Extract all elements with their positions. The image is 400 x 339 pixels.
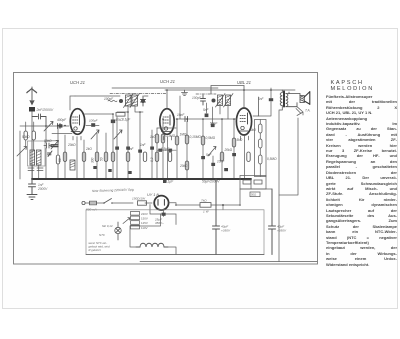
svg-text:1nF: 1nF [140, 143, 147, 147]
wire V2 grid cap [166, 90, 168, 109]
wire B+ top rail [165, 89, 295, 91]
switch S3 mains [104, 199, 112, 204]
svg-text:0,5MΩ: 0,5MΩ [206, 136, 216, 140]
tube V4 UY 1 N rectifier [154, 196, 168, 210]
svg-text:50Ω: 50Ω [251, 193, 256, 197]
capacitor C7 5nF anode [258, 88, 273, 116]
wire vertical drops left [46, 112, 152, 179]
wire B+ run [240, 179, 272, 205]
svg-text:50kΩ: 50kΩ [44, 139, 52, 143]
tube V2 UCH 21 IF amp [160, 109, 174, 141]
svg-text:UCH 21: UCH 21 [70, 80, 85, 85]
ground symbol at rail [182, 90, 188, 96]
svg-text:50pF: 50pF [210, 122, 218, 126]
svg-text:7kΩ: 7kΩ [201, 199, 207, 203]
svg-text:50µF/2000V: 50µF/2000V [202, 180, 220, 184]
loudspeaker voice coil [289, 94, 304, 107]
wire V1 anode to IF1 [70, 96, 113, 117]
wire B+ vertical right [278, 111, 280, 262]
wire diode network row [157, 96, 237, 128]
trimmer capacitor C10 [51, 141, 59, 150]
wire T2 secondary leads [207, 103, 229, 123]
svg-text:5nF: 5nF [128, 147, 135, 151]
wire V3 anode [253, 97, 259, 116]
node junction dots [45, 89, 272, 206]
svg-text:100pF: 100pF [104, 97, 114, 101]
IF transformer T2 coil L4 [226, 95, 231, 106]
lamp scale lamp [99, 222, 121, 240]
svg-text:1kΩ: 1kΩ [150, 135, 156, 139]
svg-text:0,3: 0,3 [150, 157, 154, 162]
wire tuner verticals [20, 122, 58, 179]
tuner coil L5 [30, 150, 35, 165]
capacitor C26 1nF/2000V [29, 179, 49, 194]
svg-text:10nF: 10nF [217, 160, 225, 164]
svg-text:+350V: +350V [277, 229, 287, 233]
oscillator coil L7 [70, 160, 75, 170]
svg-text:R gekürzt.: R gekürzt. [89, 248, 102, 252]
svg-text:UBL 21: UBL 21 [237, 80, 251, 85]
capacitor C9 50pF blob [211, 124, 215, 128]
wire bottom rail 2 [140, 261, 317, 263]
svg-text:150V: 150V [141, 217, 148, 221]
svg-text:0,3MΩ: 0,3MΩ [166, 134, 176, 138]
svg-text:NTC: NTC [99, 233, 106, 237]
switch arrows oscillator [91, 130, 122, 139]
svg-text:0,15MΩ: 0,15MΩ [190, 135, 202, 139]
svg-text:5nF: 5nF [258, 97, 265, 101]
wire rectifier cathode out [169, 203, 240, 205]
svg-text:2nF/2000V: 2nF/2000V [36, 108, 54, 112]
wire V3 grid cap [211, 86, 244, 108]
svg-text:UCH 21: UCH 21 [160, 79, 175, 84]
svg-text:400pF: 400pF [57, 118, 67, 122]
NTC enclosure box [86, 210, 264, 255]
capacitors C13 C14 tuner [28, 168, 43, 171]
wire speaker taps [296, 107, 303, 116]
switch S2 wave trap [17, 147, 27, 157]
wire top rail to IF1 [75, 95, 148, 97]
trimmer arrows T2 [216, 94, 234, 108]
svg-text:T.A.: T.A. [305, 109, 311, 113]
tube V3 UBL 21 output [236, 108, 251, 141]
wire AVC line [112, 87, 218, 89]
svg-text:Skl 0,14: Skl 0,14 [102, 224, 113, 228]
wire bottom rail 1 [86, 254, 264, 256]
resistor R2 input [24, 131, 27, 140]
tuner coil shield box [28, 141, 46, 166]
capacitor C4 across T1 [141, 96, 146, 106]
resistor R4 oscillator [56, 155, 59, 164]
trimmer arrow tone [208, 147, 216, 157]
wire shielded (dash-dot) [110, 93, 216, 96]
svg-text:Netz-Sicherung 220/110V Spg.: Netz-Sicherung 220/110V Spg. [92, 188, 135, 193]
svg-text:125V: 125V [141, 221, 148, 225]
ground symbol chassis [27, 195, 37, 200]
resistor R3 input [32, 131, 35, 140]
resistors R25 R26 NTC box [240, 176, 266, 190]
core dots T1 [119, 99, 123, 103]
description panel [326, 81, 397, 267]
svg-text:2kΩ: 2kΩ [85, 147, 92, 151]
wire vertical drops mid [157, 119, 234, 179]
svg-text:20kΩ: 20kΩ [179, 164, 188, 168]
svg-text:+350V: +350V [221, 229, 231, 233]
svg-text:300: 300 [91, 157, 95, 163]
wire oscillator horizontals [46, 134, 72, 141]
schematic frame [14, 73, 318, 265]
svg-text:1MΩ: 1MΩ [180, 133, 187, 137]
svg-text:50: 50 [58, 158, 62, 162]
capacitor C11 angle mark [48, 151, 53, 157]
loudspeaker LS1 horn [304, 92, 310, 113]
wire T1 secondary leads [117, 106, 143, 112]
wire grid signal row [32, 125, 69, 127]
resistor R24 7k/1W [200, 199, 224, 214]
svg-text:0,5µF: 0,5µF [161, 147, 170, 151]
svg-text:350V~: 350V~ [155, 221, 164, 225]
node bus junctions [45, 178, 246, 180]
wire chassis ground bus [32, 178, 251, 180]
IF transformer T1 coil L2 [132, 95, 138, 106]
svg-text:110V: 110V [141, 226, 148, 230]
value labels [22, 97, 277, 184]
svg-text:0,1µF: 0,1µF [122, 118, 131, 122]
svg-text:2000V: 2000V [37, 187, 48, 191]
tube V1 UCH 21 mixer [70, 109, 84, 141]
svg-text:50kΩ: 50kΩ [22, 135, 30, 139]
svg-text:50: 50 [100, 157, 104, 161]
capacitor C3 400pF series [58, 124, 61, 129]
IF transformer T2 coil L3 [218, 95, 223, 106]
capacitor C27 25uF [154, 213, 166, 225]
resistor R27 50 ohm [250, 192, 260, 197]
fuse F1 500mA [86, 201, 97, 211]
svg-text:150Ω/1W: 150Ω/1W [132, 197, 146, 201]
wire heater chain [130, 214, 176, 255]
capacitor C5 0,1uF blob [111, 120, 115, 124]
capacitor C6 100pF [192, 95, 206, 105]
antenna symbol [27, 87, 37, 105]
switch S1 band selector [44, 122, 53, 132]
capacitors C15-C25 blob row [93, 147, 236, 184]
wave adjust symbol [108, 100, 117, 101]
wire cap row link [157, 149, 176, 151]
note NTC annotation [89, 241, 111, 252]
capacitor C1 2nF/2000V antenna [29, 107, 54, 112]
svg-text:100pF: 100pF [89, 119, 98, 123]
capacitor C2 series input [32, 114, 46, 126]
capacitor C8 5nF blob [205, 114, 209, 118]
wire antenna lead down [31, 112, 33, 179]
svg-text:5nF: 5nF [206, 153, 213, 157]
IF transformer T1 coil L1 [126, 95, 132, 106]
heater resistor loops [136, 243, 168, 247]
capacitor C28 40uF electrolytic [213, 179, 231, 255]
resistor R23 150 ohm [132, 197, 147, 206]
wire cathode drops [77, 141, 245, 179]
capacitor 100pF grid2 [91, 123, 95, 127]
wire mains line [85, 202, 152, 204]
svg-text:5nF: 5nF [203, 108, 210, 112]
svg-text:5kΩ: 5kΩ [250, 128, 256, 132]
svg-text:20kΩ: 20kΩ [67, 143, 76, 147]
voltage selector taps [123, 212, 148, 230]
capacitor C12 padder [44, 143, 52, 148]
svg-text:20kΩ: 20kΩ [224, 148, 233, 152]
svg-text:0,5MΩ: 0,5MΩ [267, 157, 277, 161]
output transformer T3 [279, 90, 289, 110]
trimmer arrows T1 [124, 94, 140, 108]
wire heater loop [150, 205, 176, 225]
capacitor C29 40uF electrolytic [269, 189, 287, 255]
tuner coil L6 [36, 150, 41, 165]
node mains terminal [82, 201, 85, 204]
resistor R1 47k [115, 113, 125, 123]
resistor chain R20-R22 divider box [255, 120, 267, 177]
svg-text:0,1µF: 0,1µF [165, 180, 174, 184]
svg-text:220V: 220V [141, 212, 148, 216]
svg-text:5kΩ: 5kΩ [237, 138, 243, 142]
svg-text:10nF: 10nF [177, 113, 185, 117]
wire speaker return [279, 118, 298, 195]
svg-text:100pF: 100pF [192, 96, 202, 100]
resistors R5-R19 vertical row [63, 134, 250, 170]
